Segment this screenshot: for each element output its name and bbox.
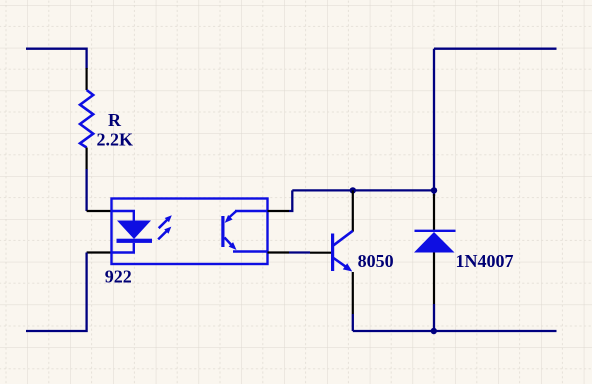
svg-text:2.2K: 2.2K [97,129,134,149]
transistor Q1 base pin (black) [310,252,331,254]
wire transistor emitter to bottom rail [352,314,354,331]
optocoupler phototransistor collector diagonal with arrow to bar [225,211,237,223]
resistor R1 pin 2 (bottom, black) [85,148,87,170]
optocoupler LED triangle [117,221,151,240]
optocoupler LED cathode lead [112,243,134,253]
transistor Q1 collector diagonal [334,231,353,246]
optocoupler phototransistor collector lead [235,210,268,212]
diode D1 cathode pin (black) [433,194,435,231]
junction dot at diode top node [431,187,437,193]
optocoupler emission arrow 1 [159,215,172,228]
optocoupler U1 pin 1 (anode, black) [87,210,112,212]
optocoupler U1 pin 3 (emitter, black) [268,251,290,253]
transistor Q1 emitter diagonal with arrowhead [334,258,353,272]
wire bottom rail [353,330,557,332]
transistor Q1 base bar [331,234,334,272]
optocoupler U1 body box [112,199,268,265]
optocoupler U1 pin 2 (cathode, black) [87,251,112,253]
diode D1 triangle [414,232,455,253]
wire resistor bottom to optocoupler pin1 [85,169,87,211]
wire top-right horizontal [434,48,557,50]
svg-text:8050: 8050 [358,251,394,271]
optocoupler phototransistor emitter lead [233,250,268,252]
wire opto emitter to transistor base [289,251,310,253]
optocoupler LED cathode bar [117,239,153,243]
transistor Q1 collector pin (black vertical) [352,190,354,231]
transistor Q1 emitter pin (black vertical) [352,272,354,314]
resistor R1 pin 1 (top, black) [85,68,87,90]
optocoupler phototransistor base bar [221,216,224,247]
svg-text:R: R [108,110,122,130]
wire diode anode to bottom rail [433,304,435,331]
optocoupler LED anode lead [112,211,134,221]
resistor R1 body zigzag [80,90,93,148]
wire opto collector up to node [289,190,292,211]
optocoupler emission arrow 2 [158,227,171,240]
diode D1 anode pin (black) [433,253,435,305]
optocoupler phototransistor emitter diagonal with arrowhead [225,238,237,251]
diode D1 cathode bar [415,230,456,232]
optocoupler U1 pin 4 (collector, black) [268,210,290,212]
junction dot at diode bottom node [431,328,437,334]
wire bottom-left horizontal stub [26,253,87,332]
svg-text:1N4007: 1N4007 [456,251,514,271]
wire top-left horizontal with corner down to resistor [26,49,87,69]
wire node to diode cathode pin [433,190,435,196]
svg-text:922: 922 [105,266,132,286]
wire right vertical from top corner to node [433,49,435,191]
junction dot at transistor collector node [350,187,356,193]
wire node horizontal [292,189,434,191]
